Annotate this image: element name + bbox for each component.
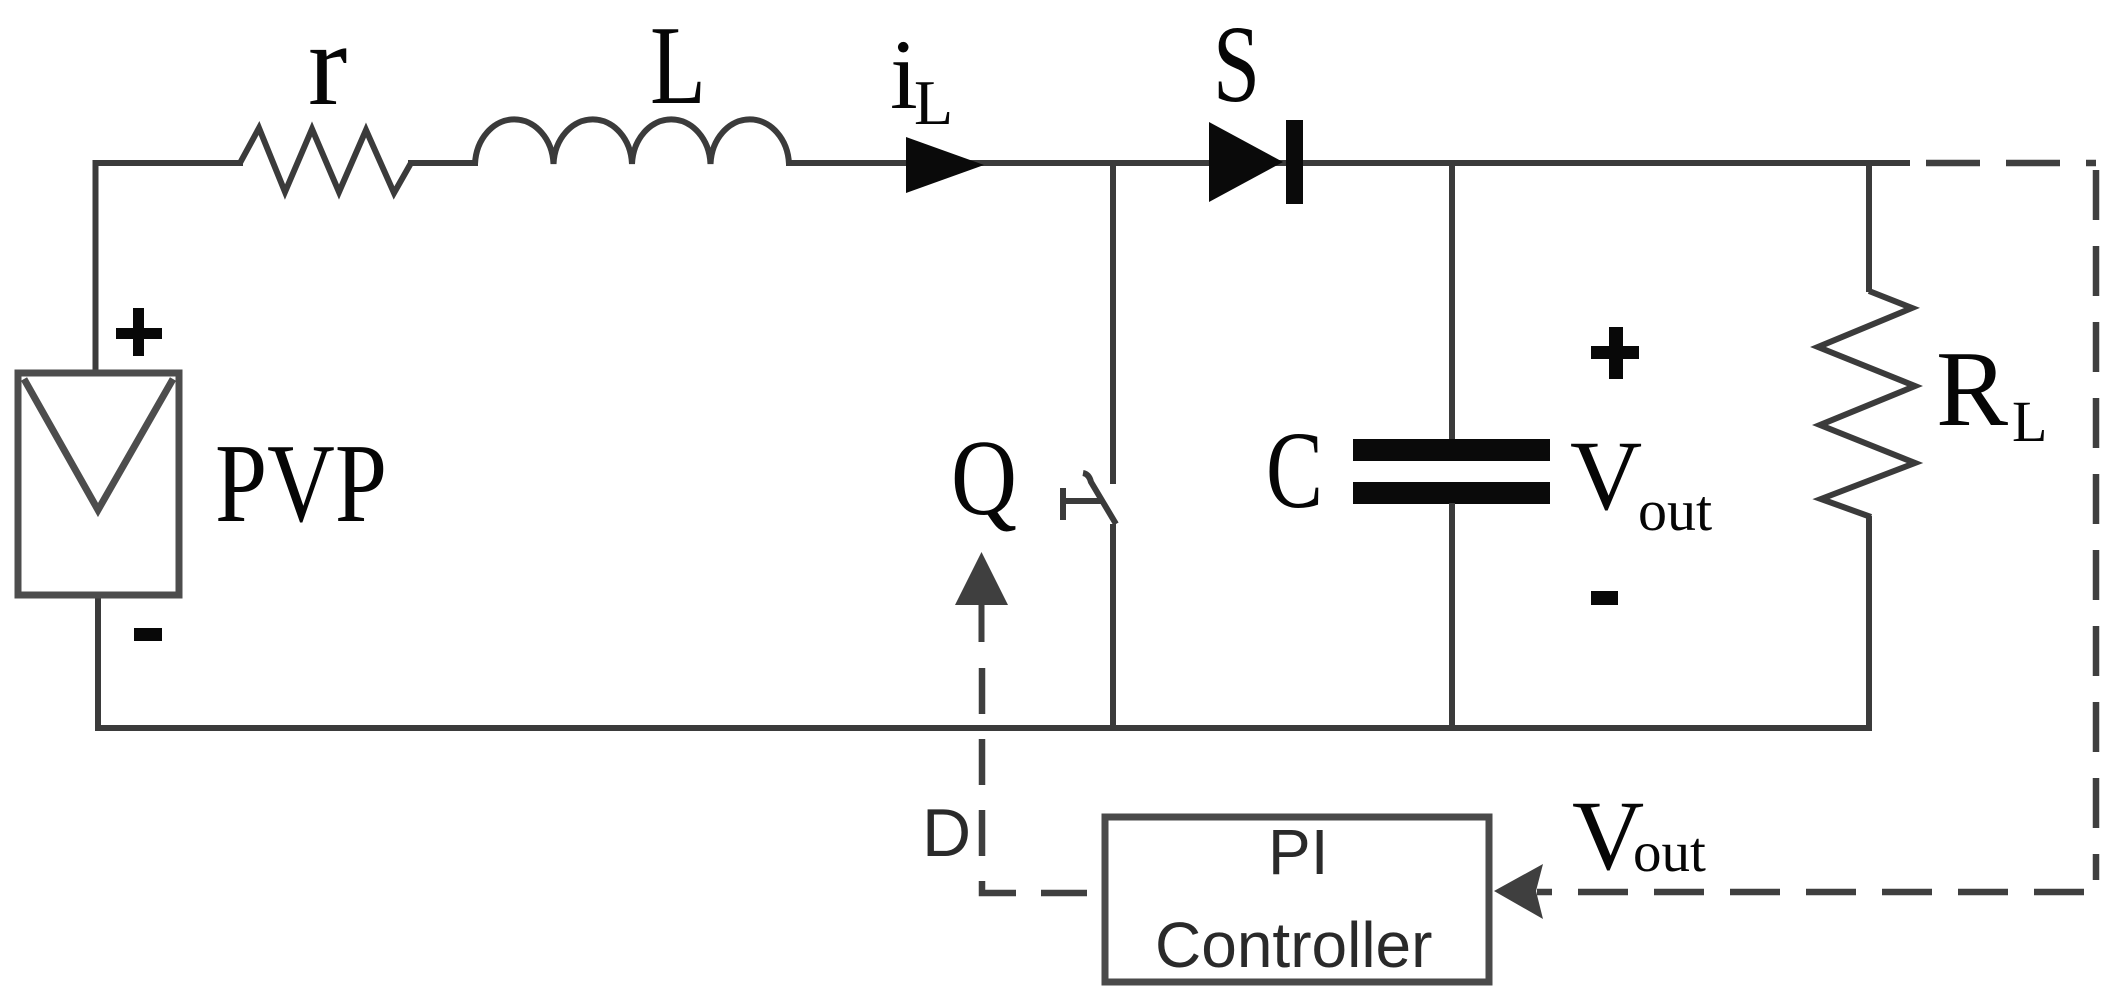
dashed control line D from PI controller to switch [982,668,1103,893]
capacitor C bottom plate [1353,482,1550,504]
inductor L (four humps) [475,119,789,164]
diode S cathode bar [1286,120,1303,204]
svg-text:out: out [1638,478,1712,543]
wire: top bus from L to solid end before dashed corner [786,160,1910,166]
resistor RL (vertical zigzag) [1818,291,1915,517]
wire: load branch lower segment [1866,516,1872,731]
dashed feedback sense line (right vertical) [2093,170,2100,880]
dashed feedback sense line (top right) [1926,160,2096,167]
svg-text:D: D [922,795,971,871]
svg-text:Controller: Controller [1155,909,1432,981]
switch Q gate tick [1060,498,1101,504]
svg-text:L: L [650,4,706,128]
svg-text:C: C [1266,409,1323,531]
svg-text:out: out [1633,821,1706,884]
wire: switch branch upper segment [1110,160,1116,484]
wire: left vertical from top bus down to PVP + terminal [93,160,99,374]
minus sign at PVP negative terminal [134,628,162,641]
svg-text:r: r [308,0,347,130]
wire: top bus between r and L [408,160,478,166]
gate drive arrow (points up at switch) [955,552,1008,605]
svg-text:R: R [1936,330,2008,449]
plus sign at PVP positive terminal [116,328,162,339]
minus sign of output voltage [1591,591,1618,605]
resistor r (series zigzag) [240,128,411,193]
PVP chevron (V symbol inside box) [24,379,173,510]
svg-text:PVP: PVP [215,422,387,546]
svg-text:PI: PI [1268,816,1328,888]
dashed feedback sense line (bottom, into controller) [1537,889,2084,896]
wire: PVP bottom lead down to bottom bus [95,595,101,731]
svg-text:L: L [914,67,953,138]
plus sign of output voltage [1591,346,1639,359]
capacitor C top plate [1353,439,1550,461]
feedback arrowhead into PI controller [1494,864,1543,919]
switch Q blade [1083,473,1116,524]
svg-text:Q: Q [951,419,1017,538]
wire: capacitor branch upper segment [1449,160,1455,440]
diode S (anode triangle) [1209,122,1283,202]
svg-text:L: L [2012,389,2047,454]
PI controller box [1105,817,1489,982]
wire: top bus left segment (PVP corner to resistor r) [93,160,244,166]
current arrow iL on top bus [906,137,984,193]
PVP source box [18,373,179,595]
svg-text:V: V [1570,420,1642,531]
svg-text:S: S [1213,3,1260,125]
wire: bottom horizontal bus [95,725,1872,731]
wire: switch branch lower segment [1110,524,1116,728]
wire: capacitor branch lower segment [1449,503,1455,728]
wire: load branch upper segment [1866,160,1872,292]
